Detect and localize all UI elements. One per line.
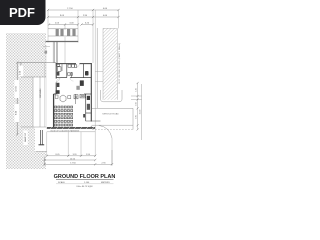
text mask boxes bbox=[14, 66, 23, 123]
svg-text:F.A = 80.75 SQM: F.A = 80.75 SQM bbox=[77, 185, 93, 188]
steps left bbox=[56, 90, 60, 94]
dimension labels top bbox=[55, 8, 108, 25]
center table hexagon bbox=[55, 95, 71, 102]
svg-text:RAMP UP: RAMP UP bbox=[24, 132, 27, 142]
gate rails bbox=[48, 29, 78, 36]
front fence wall bbox=[46, 41, 79, 43]
party wall rounded end outline bbox=[101, 90, 122, 102]
svg-text:12.50: 12.50 bbox=[15, 86, 17, 92]
svg-text:NOT IN OUR SCOPE (PARTY WALL): NOT IN OUR SCOPE (PARTY WALL) bbox=[118, 43, 121, 84]
gate posts (4 hatched columns) bbox=[56, 29, 76, 36]
svg-text:17.50: 17.50 bbox=[67, 8, 73, 10]
top dimension row A bbox=[48, 10, 119, 25]
svg-text:EDGE OF CONCRETE PAVEMENT: EDGE OF CONCRETE PAVEMENT bbox=[51, 129, 81, 132]
svg-text:METERS: METERS bbox=[101, 182, 110, 184]
entry path lines bbox=[53, 42, 58, 63]
building outer walls bbox=[54, 63, 92, 128]
svg-text:PDF: PDF bbox=[9, 5, 35, 20]
driveway lane lines bbox=[47, 125, 95, 156]
svg-text:SCALE: SCALE bbox=[58, 181, 65, 184]
svg-text:25.00: 25.00 bbox=[139, 110, 141, 115]
toilet blob bbox=[85, 71, 89, 76]
porch wall (bottom hatched band) bbox=[47, 127, 95, 129]
party wall hatch strip bbox=[103, 28, 117, 100]
stipple landscaping region (left yard) bbox=[6, 33, 46, 169]
svg-text:1:100: 1:100 bbox=[84, 182, 90, 184]
svg-text:SERVICE ROAD: SERVICE ROAD bbox=[102, 113, 119, 116]
dimension ticks top bbox=[47, 9, 120, 26]
planter block bbox=[45, 51, 48, 54]
svg-text:PATHWAY: PATHWAY bbox=[39, 88, 42, 98]
stair mass bbox=[80, 80, 84, 86]
svg-text:1.20: 1.20 bbox=[135, 88, 137, 92]
fixtures upper-left room bbox=[57, 64, 77, 75]
bottom dimension rows bbox=[44, 150, 112, 166]
seating grid bbox=[55, 106, 73, 126]
svg-text:5.60: 5.60 bbox=[135, 115, 137, 119]
pavement edge + label bbox=[47, 131, 95, 133]
svg-text:2.90: 2.90 bbox=[135, 102, 137, 106]
PDF badge bbox=[0, 0, 46, 25]
lavatory counters bbox=[74, 94, 86, 99]
service road bbox=[92, 108, 134, 129]
left property boundary bbox=[17, 62, 56, 135]
extension lines from top dims bbox=[48, 10, 119, 125]
lavatory partition bbox=[75, 94, 77, 104]
svg-text:17.50: 17.50 bbox=[70, 163, 76, 165]
side walkway bbox=[21, 77, 46, 127]
interior partitions bbox=[56, 64, 101, 121]
page background bbox=[0, 0, 149, 198]
left rotated dim labels bbox=[15, 70, 21, 115]
svg-text:14.50: 14.50 bbox=[70, 158, 76, 160]
walkway outer edge lines bbox=[45, 45, 47, 127]
door swing arcs bbox=[56, 64, 80, 83]
right dimension chain bbox=[131, 83, 142, 140]
left wall fixtures bbox=[57, 72, 60, 76]
fence connector stubs bbox=[95, 72, 103, 82]
svg-text:GROUND FLOOR PLAN: GROUND FLOOR PLAN bbox=[54, 174, 116, 180]
